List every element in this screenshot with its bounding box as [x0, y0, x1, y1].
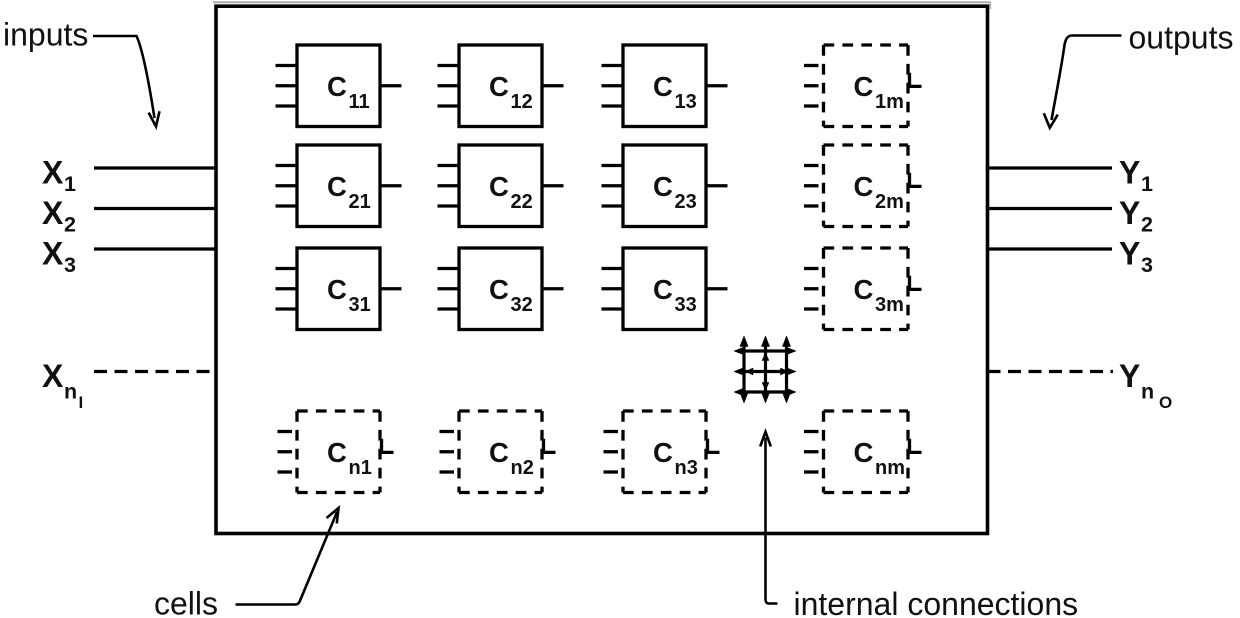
svg-text:11: 11 — [349, 91, 370, 113]
wire output Y2 — [988, 207, 1113, 210]
cell C11 — [276, 45, 402, 127]
svg-text:C: C — [653, 437, 673, 468]
svg-text:C: C — [327, 274, 347, 305]
svg-text:X: X — [42, 195, 64, 231]
cell C12 — [438, 45, 564, 127]
wire input X3 — [94, 247, 216, 250]
cell C33 — [602, 248, 728, 330]
svg-text:13: 13 — [675, 91, 697, 113]
svg-text:C: C — [854, 274, 874, 305]
svg-text:n: n — [1141, 380, 1154, 404]
cell C23 — [602, 145, 728, 227]
svg-text:1: 1 — [64, 172, 76, 196]
cell C22 — [438, 145, 564, 227]
svg-text:21: 21 — [349, 191, 371, 213]
svg-text:outputs: outputs — [1129, 20, 1234, 56]
wire output Yn (dashed) — [988, 370, 1114, 373]
cell C31 — [276, 248, 402, 330]
svg-text:C: C — [489, 437, 509, 468]
svg-text:1m: 1m — [875, 91, 904, 113]
svg-text:12: 12 — [511, 91, 533, 113]
svg-text:Y: Y — [1119, 236, 1140, 272]
label Y3 — [1119, 236, 1153, 278]
svg-text:n: n — [64, 380, 77, 404]
label X2 — [42, 195, 76, 237]
svg-text:31: 31 — [349, 294, 371, 316]
svg-text:C: C — [327, 71, 347, 102]
leader arrow outputs — [1044, 36, 1122, 128]
svg-text:C: C — [854, 171, 874, 202]
svg-text:X: X — [42, 358, 64, 394]
svg-text:nm: nm — [875, 457, 905, 479]
label X1 — [42, 155, 76, 197]
svg-text:O: O — [1159, 393, 1172, 412]
svg-text:2: 2 — [64, 213, 76, 237]
svg-text:n1: n1 — [349, 457, 372, 479]
cell Cnm — [804, 411, 922, 493]
wire output Y3 — [988, 247, 1113, 250]
svg-text:X: X — [42, 155, 64, 191]
label Y2 — [1119, 195, 1153, 237]
svg-text:22: 22 — [511, 191, 533, 213]
array outer box — [216, 6, 988, 533]
wire output Y1 — [988, 166, 1113, 169]
label Yn_O — [1119, 358, 1172, 412]
leader arrow inputs — [93, 36, 160, 127]
svg-text:C: C — [327, 171, 347, 202]
svg-text:Y: Y — [1119, 195, 1140, 231]
svg-text:C: C — [653, 71, 673, 102]
svg-text:X: X — [42, 236, 64, 272]
svg-text:Y: Y — [1119, 358, 1140, 394]
svg-text:C: C — [653, 274, 673, 305]
cell C3m — [804, 248, 922, 330]
svg-text:23: 23 — [675, 191, 697, 213]
internal connections grid symbol — [734, 336, 796, 403]
label Xn_I — [42, 358, 83, 412]
svg-text:2: 2 — [1141, 213, 1153, 237]
svg-text:inputs: inputs — [3, 17, 88, 53]
svg-text:C: C — [489, 171, 509, 202]
svg-text:C: C — [489, 71, 509, 102]
svg-text:33: 33 — [675, 294, 697, 316]
svg-text:n2: n2 — [511, 457, 534, 479]
svg-text:3: 3 — [64, 253, 76, 277]
svg-text:cells: cells — [154, 586, 218, 618]
cell Cn2 — [440, 411, 556, 493]
svg-text:internal connections: internal connections — [794, 586, 1079, 618]
svg-text:3: 3 — [1141, 253, 1153, 277]
wire input Xn (dashed) — [94, 370, 216, 373]
svg-text:Y: Y — [1119, 155, 1140, 191]
wire input X1 — [94, 166, 216, 169]
svg-text:n3: n3 — [675, 457, 698, 479]
svg-text:C: C — [327, 437, 347, 468]
svg-text:C: C — [653, 171, 673, 202]
svg-text:1: 1 — [1141, 172, 1153, 196]
label X3 — [42, 236, 76, 278]
cell C32 — [438, 248, 564, 330]
cell C13 — [602, 45, 728, 127]
cell Cn1 — [278, 411, 394, 493]
leader arrow internal connections — [760, 432, 777, 604]
cell C2m — [804, 145, 922, 227]
svg-text:I: I — [79, 393, 84, 412]
wire input X2 — [94, 207, 216, 210]
svg-text:32: 32 — [511, 294, 533, 316]
cell C21 — [276, 145, 402, 227]
cell C1m — [804, 45, 922, 127]
svg-text:C: C — [489, 274, 509, 305]
scan artifact grey line — [213, 1, 991, 3]
leader arrow cells — [236, 508, 339, 605]
cell Cn3 — [604, 411, 720, 493]
svg-text:3m: 3m — [875, 294, 904, 316]
svg-text:C: C — [854, 437, 874, 468]
svg-text:2m: 2m — [875, 191, 904, 213]
svg-text:C: C — [854, 71, 874, 102]
label Y1 — [1119, 155, 1153, 197]
